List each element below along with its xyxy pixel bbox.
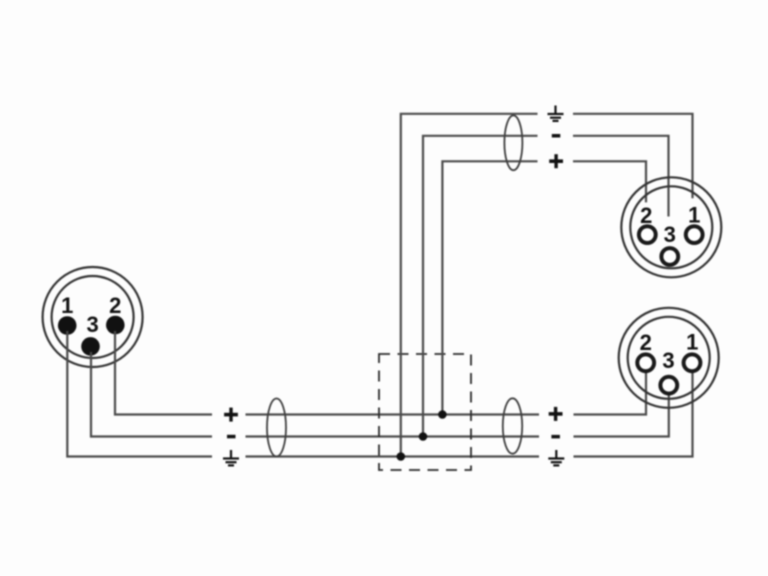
minus symbol left group <box>227 435 236 439</box>
node cold junction <box>419 432 428 441</box>
wire cold to J2 pin3 <box>573 136 669 217</box>
J2 pin 2 socket <box>639 226 656 243</box>
connector J2 top-right female XLR body <box>621 177 721 277</box>
cable sheath oval right <box>503 398 522 453</box>
svg-text:1: 1 <box>686 330 698 355</box>
splice junction dashed box <box>379 354 471 470</box>
svg-text:3: 3 <box>86 312 98 337</box>
minus symbol top group <box>552 134 561 138</box>
wire shield to J2 pin1 <box>573 114 693 198</box>
wire shield line mid segment <box>246 455 540 457</box>
wire hot to J2 pin2 <box>573 161 646 202</box>
J1 pin 2 <box>106 316 125 335</box>
J3 pin 3 socket <box>660 377 677 394</box>
ground symbol top group <box>548 106 564 121</box>
connector J1 left male XLR body <box>43 267 143 367</box>
plus symbol left group <box>224 408 238 422</box>
plus symbol right group <box>549 407 563 421</box>
svg-text:3: 3 <box>664 222 676 247</box>
J3 pin 1 socket <box>684 354 701 371</box>
wire hot tap vertical <box>442 161 537 414</box>
svg-text:2: 2 <box>640 330 652 355</box>
wire shield tap vertical <box>401 114 538 457</box>
wire cold line mid segment <box>246 435 540 437</box>
J2 pin 1 socket <box>686 226 703 243</box>
minus symbol right group <box>551 435 560 439</box>
wire J1 pin2 to hot line <box>115 331 212 415</box>
svg-text:2: 2 <box>640 203 652 228</box>
wire J1 pin3 to cold line <box>91 352 212 437</box>
wire hot line mid segment <box>246 413 540 415</box>
wire shield to J3 pin1 <box>574 372 693 457</box>
wire cold to J3 pin3 <box>574 394 669 437</box>
J3 pin 2 socket <box>637 354 654 371</box>
wire hot to J3 pin2 <box>574 372 647 415</box>
cable sheath oval left <box>267 399 286 457</box>
wire cold tap vertical <box>423 136 538 437</box>
node shield junction <box>397 452 406 461</box>
svg-text:1: 1 <box>61 293 73 318</box>
J1 pin 3 <box>81 337 100 356</box>
ground symbol left group <box>223 450 239 465</box>
svg-text:3: 3 <box>662 348 674 373</box>
node hot junction <box>438 410 447 419</box>
ground symbol right group <box>548 450 564 465</box>
svg-text:2: 2 <box>109 293 121 318</box>
connector J3 bottom-right female XLR body <box>619 308 719 408</box>
wire J1 pin1 to shield line <box>67 331 212 457</box>
J2 pin 3 socket <box>661 248 678 265</box>
svg-text:1: 1 <box>688 203 700 228</box>
plus symbol top group <box>549 154 563 168</box>
J1 pin 1 <box>58 316 77 335</box>
cable sheath oval top <box>504 115 522 170</box>
